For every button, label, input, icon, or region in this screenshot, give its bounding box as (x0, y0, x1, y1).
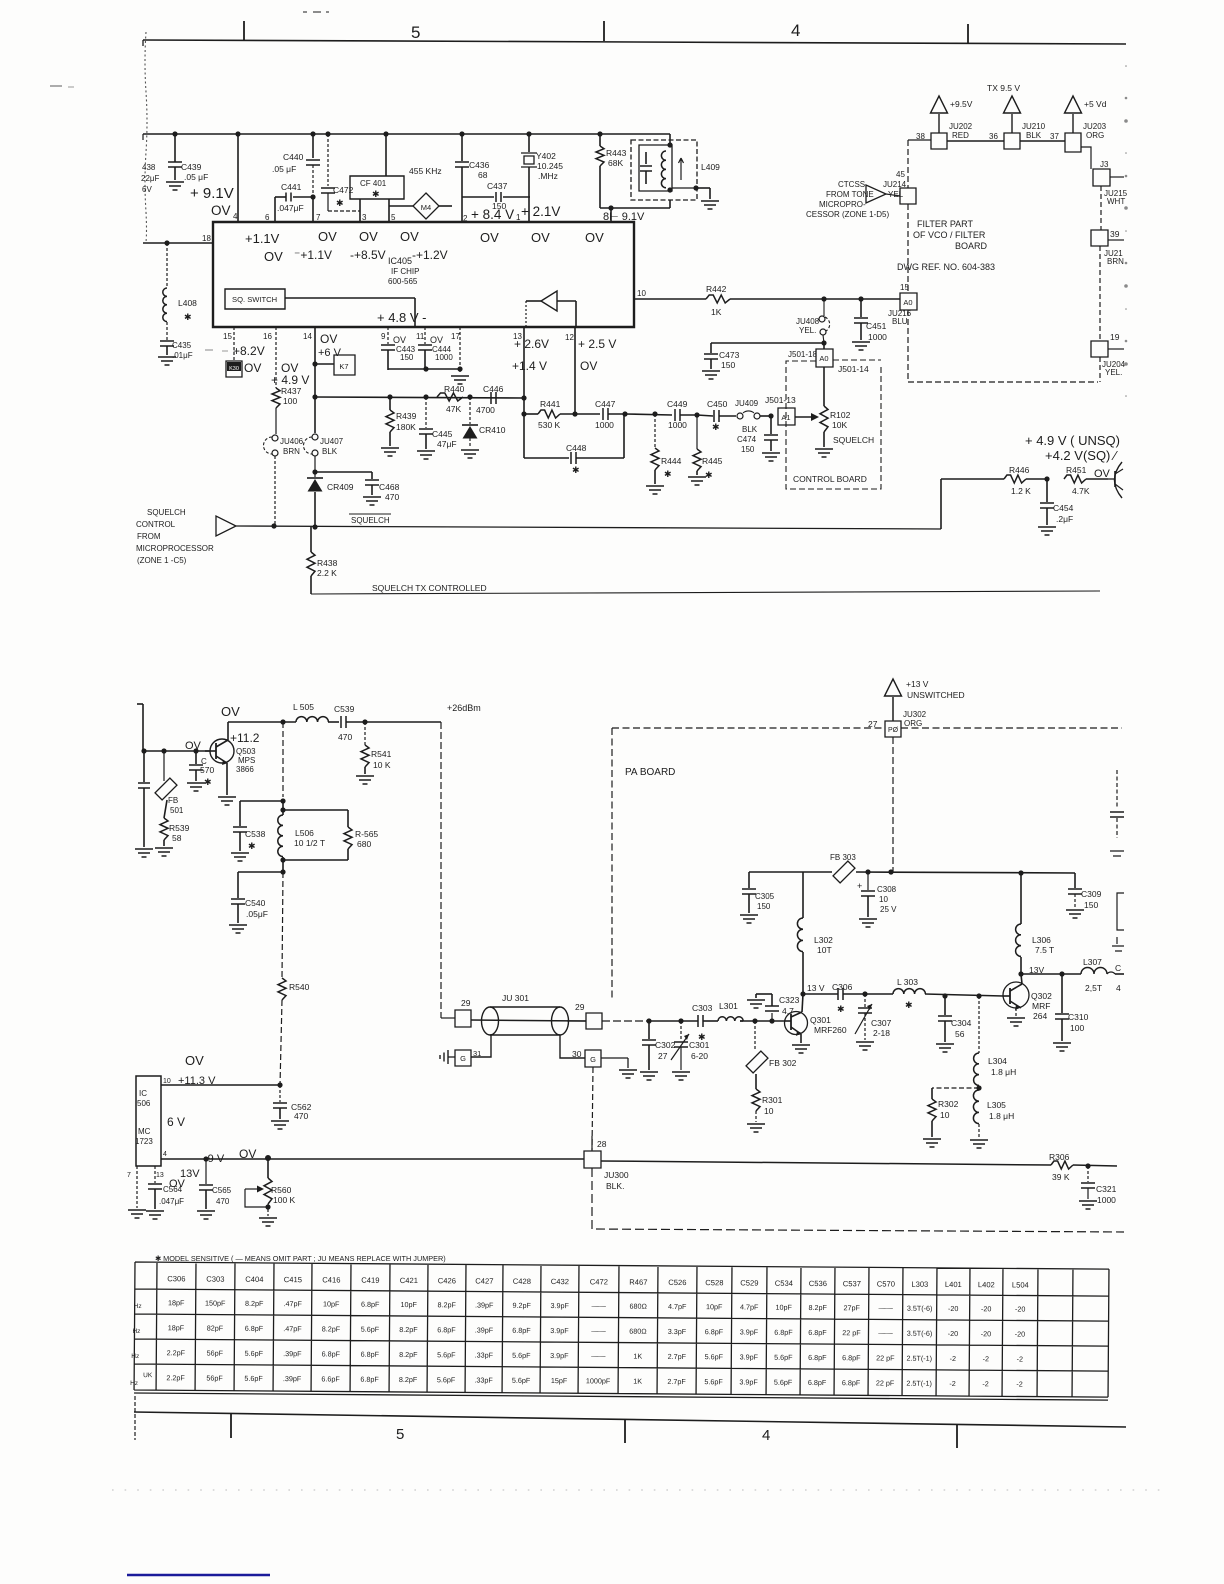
power TX 9.5V triangle (987, 83, 1021, 133)
svg-text:13V: 13V (180, 1168, 200, 1180)
svg-text:100 K: 100 K (273, 1195, 296, 1205)
capacitor C449 (667, 399, 700, 430)
svg-text:1000: 1000 (595, 420, 614, 430)
page corner marks (50, 12, 329, 351)
wire JU202-JU210 (947, 140, 1004, 142)
svg-text:C305: C305 (755, 892, 775, 901)
svg-text:2.2pF: 2.2pF (167, 1348, 186, 1357)
resistor R438 (307, 527, 338, 594)
svg-text:L402: L402 (978, 1280, 995, 1289)
transistor fragment right edge (1108, 462, 1123, 498)
IC IC506 regulator box (135, 1076, 161, 1166)
svg-text:+ 8.4 V: + 8.4 V (471, 207, 514, 222)
svg-text:+ 2.6V: + 2.6V (514, 337, 549, 351)
svg-text:-20: -20 (1015, 1329, 1025, 1338)
crystal Y402 (521, 131, 563, 222)
svg-text:3866: 3866 (236, 765, 254, 774)
diode CR410 (462, 397, 506, 448)
svg-text:R445: R445 (702, 456, 723, 466)
capacitor C441 (275, 182, 316, 222)
svg-text:6V: 6V (142, 185, 152, 194)
svg-text:C473: C473 (719, 350, 740, 360)
resistor R442 row (634, 284, 900, 317)
svg-text:SQUELCH: SQUELCH (351, 516, 390, 525)
svg-text:YEL.: YEL. (1105, 368, 1122, 377)
svg-text:8.2pF: 8.2pF (245, 1299, 264, 1308)
svg-text:JU202: JU202 (949, 122, 973, 131)
svg-text:.05 μF: .05 μF (184, 172, 208, 182)
svg-text:47K: 47K (446, 404, 461, 414)
faint separator (112, 1489, 1165, 1491)
svg-text:6-20: 6-20 (691, 1051, 708, 1061)
svg-text:-+1.2V: -+1.2V (412, 248, 448, 262)
capacitor C306 (803, 982, 865, 1014)
wire pin 4 row (161, 1151, 584, 1162)
svg-text:4: 4 (791, 21, 800, 40)
svg-text:J501-18: J501-18 (788, 350, 817, 359)
wire Q302 collector (1018, 965, 1044, 984)
capacitor C570 (189, 751, 214, 787)
wire PA ground return (592, 1168, 1124, 1232)
svg-text:4.7: 4.7 (782, 1006, 794, 1016)
svg-text:C306: C306 (167, 1274, 185, 1283)
svg-text:9: 9 (381, 332, 386, 341)
filter board label (897, 219, 995, 272)
svg-text:JU302: JU302 (903, 710, 927, 719)
capacitor C444 (418, 327, 453, 370)
svg-text:7: 7 (316, 213, 321, 222)
svg-text:A0: A0 (903, 298, 912, 307)
svg-text:29: 29 (575, 1002, 585, 1012)
svg-text:8.2pF: 8.2pF (399, 1325, 418, 1334)
svg-text:5.6pF: 5.6pF (774, 1353, 793, 1362)
wire C306-L303 (862, 991, 893, 996)
svg-text:4: 4 (163, 1151, 167, 1158)
svg-text:-2: -2 (1016, 1379, 1022, 1388)
ground C304 (936, 1044, 954, 1052)
resistor R439 (386, 397, 417, 446)
svg-text:6.8pF: 6.8pF (512, 1326, 531, 1335)
svg-text:C309: C309 (1081, 889, 1102, 899)
svg-text:R302: R302 (938, 1099, 959, 1109)
wire squelch tx controlled (311, 583, 1100, 594)
svg-text:38: 38 (916, 132, 925, 141)
svg-text:10pF: 10pF (400, 1300, 417, 1309)
svg-text:SQUELCH: SQUELCH (147, 508, 186, 517)
svg-text:C436: C436 (469, 160, 490, 170)
svg-text:7.5 T: 7.5 T (1035, 945, 1054, 955)
svg-text:13 V: 13 V (807, 983, 825, 993)
resistor R302 (928, 1088, 979, 1137)
capacitor C303 (649, 1003, 718, 1042)
svg-text:Q302: Q302 (1031, 991, 1052, 1001)
svg-text:L 303: L 303 (897, 977, 918, 987)
resistor R541 (361, 722, 392, 774)
svg-text:7: 7 (127, 1172, 131, 1179)
ground R560 (259, 1218, 277, 1226)
svg-text:FB 303: FB 303 (830, 853, 856, 862)
svg-text:.39pF: .39pF (283, 1374, 302, 1383)
svg-text:8.2pF: 8.2pF (399, 1375, 418, 1384)
potentiometer R102 (820, 367, 874, 447)
ground R302 (923, 1139, 941, 1147)
svg-text:R441: R441 (540, 399, 561, 409)
svg-text:Q301: Q301 (810, 1015, 831, 1025)
svg-text:C439: C439 (181, 162, 202, 172)
wire CF401 pin5 (389, 199, 396, 222)
wire to JU301 (441, 722, 455, 1018)
svg-text:18pF: 18pF (168, 1298, 185, 1307)
svg-text:C303: C303 (692, 1003, 713, 1013)
border zone number 5 top (411, 23, 420, 42)
wire pin 12 drop (572, 327, 577, 417)
resistor R446 (941, 465, 1050, 496)
svg-text:+6 V: +6 V (318, 347, 342, 359)
svg-text:6.8pF: 6.8pF (808, 1353, 827, 1362)
capacitor C305 (742, 872, 775, 913)
svg-text:39 K: 39 K (1052, 1172, 1070, 1182)
svg-text:+ 4.9 V: + 4.9 V (271, 373, 309, 387)
svg-text:100: 100 (283, 396, 297, 406)
svg-text:27: 27 (658, 1051, 668, 1061)
border bottom line (134, 1396, 1126, 1440)
svg-text:JU408: JU408 (796, 317, 820, 326)
svg-text:-9 V: -9 V (204, 1153, 225, 1165)
capacitor C454 (1040, 479, 1074, 525)
voltage +8.2V (233, 344, 265, 358)
svg-text:C404: C404 (245, 1275, 263, 1284)
svg-text:✱: ✱ (184, 312, 192, 322)
svg-text:+26dBm: +26dBm (447, 703, 481, 713)
svg-text:C427: C427 (475, 1276, 493, 1285)
svg-text:C428: C428 (513, 1277, 531, 1286)
svg-text:10T: 10T (817, 945, 832, 955)
svg-text:C565: C565 (212, 1186, 232, 1195)
control board outline (786, 360, 881, 489)
ground C321 (1079, 1201, 1097, 1209)
svg-text:5.6pF: 5.6pF (512, 1351, 531, 1360)
svg-text:L506: L506 (295, 828, 314, 838)
jumper JU409 (735, 399, 771, 434)
svg-text:A0: A0 (819, 354, 828, 363)
svg-text:ORG: ORG (904, 719, 922, 728)
svg-text:C415: C415 (284, 1275, 302, 1284)
connector pin 39 (1091, 229, 1124, 266)
voltage labels pin4 row (204, 1147, 256, 1165)
capacitor C451 (852, 300, 887, 350)
svg-text:C: C (1115, 963, 1121, 973)
svg-text:JU203: JU203 (1083, 122, 1107, 131)
svg-text:——: —— (591, 1326, 606, 1335)
svg-text:CR409: CR409 (327, 482, 354, 492)
svg-text:FROM: FROM (137, 532, 161, 541)
svg-text:68: 68 (478, 170, 488, 180)
svg-text:18pF: 18pF (168, 1323, 185, 1332)
svg-text:OV: OV (185, 1053, 204, 1068)
wire G30 to JU300 (592, 1067, 593, 1150)
svg-text:100: 100 (1070, 1023, 1084, 1033)
svg-text:5.6pF: 5.6pF (437, 1375, 456, 1384)
svg-text:11: 11 (416, 332, 425, 341)
wire JU302 to rail (892, 737, 894, 872)
ground C302 (640, 1072, 658, 1080)
svg-text:150: 150 (400, 353, 414, 362)
svg-text:SQUELCH: SQUELCH (833, 435, 874, 445)
transistor Q302 (1003, 982, 1052, 1021)
svg-text:YEL.: YEL. (799, 326, 816, 335)
svg-text:C451: C451 (866, 321, 887, 331)
wire to R446 (940, 479, 942, 529)
wire R440 row (315, 394, 524, 399)
resistor R-565 (283, 810, 378, 860)
svg-text:680Ω: 680Ω (629, 1327, 647, 1336)
resistor R443 (596, 131, 627, 208)
svg-text:C448: C448 (566, 443, 587, 453)
svg-text:TX 9.5 V: TX 9.5 V (987, 83, 1020, 93)
wire Q503 collector (227, 722, 229, 740)
wire JU300 row right (601, 1161, 1051, 1165)
svg-text:27pF: 27pF (843, 1303, 860, 1312)
svg-text:36: 36 (989, 132, 998, 141)
svg-text:1K: 1K (633, 1352, 642, 1361)
wire Q301 emitter (800, 1034, 802, 1043)
ground Q301 (792, 1045, 810, 1053)
svg-text:DWG REF. NO. 604-383: DWG REF. NO. 604-383 (897, 262, 995, 272)
voltage label +9.1V (190, 185, 234, 202)
svg-text:JU409: JU409 (735, 399, 759, 408)
squelch control triangle (216, 516, 236, 536)
svg-text:C449: C449 (667, 399, 688, 409)
border top line (143, 40, 1126, 46)
ground G30 (619, 1070, 637, 1078)
wire pin 10 row (161, 1075, 283, 1088)
svg-text:OV: OV (318, 229, 337, 244)
capacitor C448 loop (524, 414, 624, 475)
svg-text:✱: ✱ (698, 1032, 706, 1042)
wire JU210-JU203 (1020, 140, 1065, 142)
border zone number 4 bottom (762, 1427, 770, 1444)
svg-text:-20: -20 (981, 1329, 991, 1338)
svg-text:6: 6 (265, 213, 270, 222)
squelch control text (136, 508, 214, 565)
svg-text:1000: 1000 (668, 420, 687, 430)
svg-text:10 K: 10 K (373, 760, 391, 770)
svg-text:17: 17 (451, 332, 460, 341)
svg-text:+11.2: +11.2 (230, 731, 260, 745)
svg-text:8.2pF: 8.2pF (808, 1303, 827, 1312)
connector JU210 pin36 (989, 122, 1046, 149)
voltage label 8 +9.1V (603, 211, 645, 223)
svg-text:150: 150 (757, 902, 771, 911)
ground R301 (747, 1124, 765, 1132)
svg-text:+ 4.8 V -: + 4.8 V - (377, 310, 427, 325)
svg-text:OV: OV (393, 335, 406, 345)
svg-text:.05 μF: .05 μF (272, 164, 296, 174)
svg-text:5.6pF: 5.6pF (245, 1349, 264, 1358)
svg-text:3.9pF: 3.9pF (550, 1326, 569, 1335)
ferrite bead FB303 (830, 853, 856, 883)
svg-text:L305: L305 (987, 1100, 1006, 1110)
capacitor C438 (cut off at page edge) (141, 163, 160, 194)
wire CF401 pin3 (360, 199, 367, 222)
wire pin 7 (127, 1166, 137, 1208)
svg-text:R440: R440 (444, 384, 465, 394)
svg-text:Y402: Y402 (536, 151, 556, 161)
svg-text:15: 15 (223, 332, 232, 341)
wire sq switch to pin 14 (285, 298, 415, 327)
svg-text:PA BOARD: PA BOARD (625, 767, 675, 778)
svg-text:MPS: MPS (238, 756, 255, 765)
svg-text:YEL: YEL (888, 190, 904, 199)
svg-text:6.8pF: 6.8pF (361, 1350, 380, 1359)
svg-text:Hz: Hz (134, 1303, 142, 1310)
svg-text:L303: L303 (911, 1280, 928, 1289)
svg-text:L302: L302 (814, 935, 833, 945)
svg-text:.MHz: .MHz (538, 171, 558, 181)
svg-text:1723: 1723 (135, 1137, 153, 1146)
svg-text:2.2 K: 2.2 K (317, 568, 337, 578)
svg-text:5: 5 (411, 23, 420, 42)
svg-text:JU 301: JU 301 (502, 993, 529, 1003)
ground L409 (696, 188, 719, 209)
svg-text:150pF: 150pF (205, 1299, 226, 1308)
border zone number 4 top (791, 21, 800, 40)
voltage labels pin13 (512, 337, 549, 373)
svg-text:3: 3 (362, 213, 367, 222)
svg-text:——: —— (591, 1301, 606, 1310)
svg-text:-20: -20 (948, 1329, 958, 1338)
svg-text:5: 5 (391, 213, 396, 222)
wire pin39 to pin19 (1099, 246, 1101, 341)
wire +9.1V top rail (143, 134, 670, 140)
PA board outline (612, 728, 1122, 1000)
table note (155, 1254, 446, 1263)
svg-text:C474: C474 (737, 435, 757, 444)
svg-text:MICROPRO-: MICROPRO- (819, 200, 866, 209)
svg-text:1.8 μH: 1.8 μH (991, 1067, 1016, 1077)
svg-text:8.2pF: 8.2pF (437, 1300, 456, 1309)
svg-text:(ZONE 1 -C5): (ZONE 1 -C5) (137, 556, 187, 565)
svg-text:C570: C570 (877, 1279, 895, 1288)
ground C308 (859, 919, 877, 927)
capacitor C436 (455, 131, 490, 222)
svg-text:-2: -2 (1017, 1354, 1023, 1363)
svg-text:37: 37 (1050, 132, 1059, 141)
diode CR409 (307, 469, 354, 527)
svg-text:10: 10 (637, 289, 646, 298)
IC405 internal voltage row1 (245, 229, 604, 246)
ground C562 (271, 1121, 289, 1129)
svg-text:45: 45 (896, 170, 905, 179)
ground R445 (688, 477, 706, 485)
ground C310 (1053, 1043, 1071, 1051)
meter point M4 (389, 166, 452, 219)
svg-text:39: 39 (1110, 229, 1120, 239)
svg-text:3.9pF: 3.9pF (739, 1377, 758, 1386)
trimmer C307 (855, 994, 892, 1040)
svg-text:C321: C321 (1096, 1184, 1117, 1194)
ground C540 (229, 925, 247, 933)
svg-text:C302: C302 (655, 1040, 676, 1050)
power +13V triangle (885, 679, 965, 721)
svg-text:K7: K7 (339, 362, 348, 371)
svg-text:UNSWITCHED: UNSWITCHED (907, 690, 965, 700)
svg-text:SQ. SWITCH: SQ. SWITCH (232, 295, 277, 304)
svg-text:Hz: Hz (132, 1328, 140, 1335)
svg-text:29: 29 (461, 998, 471, 1008)
svg-text:3.3pF: 3.3pF (668, 1327, 687, 1336)
svg-text:WHT: WHT (1107, 197, 1125, 206)
svg-text:C437: C437 (487, 181, 508, 191)
svg-text:✱: ✱ (712, 422, 720, 432)
svg-text:FILTER PART: FILTER PART (917, 219, 974, 229)
svg-text:+8.2V: +8.2V (233, 344, 265, 358)
svg-text:1000: 1000 (1097, 1195, 1116, 1205)
svg-text:BOARD: BOARD (955, 241, 988, 251)
svg-text:OV: OV (1094, 468, 1111, 480)
ground C435 (158, 357, 176, 365)
svg-text:5: 5 (396, 1426, 404, 1443)
border tick top-3 (967, 24, 969, 44)
svg-text:L504: L504 (1012, 1280, 1029, 1289)
svg-text:506: 506 (137, 1099, 151, 1108)
ground C538 (231, 853, 249, 861)
svg-text:10: 10 (764, 1106, 774, 1116)
svg-text:BLK.: BLK. (606, 1181, 624, 1191)
svg-text:C441: C441 (281, 182, 302, 192)
filter CF401 (350, 131, 404, 199)
wire J3 to pin39 (1100, 186, 1102, 230)
svg-text:C416: C416 (322, 1275, 340, 1284)
svg-text:3.9pF: 3.9pF (550, 1301, 569, 1310)
ground lug G30 (560, 1035, 628, 1068)
svg-text:10: 10 (163, 1078, 171, 1085)
svg-text:OV: OV (320, 332, 337, 346)
ground R539 (155, 848, 173, 856)
svg-text:10pF: 10pF (775, 1303, 792, 1312)
ground C564 (146, 1211, 164, 1219)
svg-text:6.8pF: 6.8pF (808, 1328, 827, 1337)
svg-text:5.6pF: 5.6pF (361, 1325, 380, 1334)
svg-text:C419: C419 (361, 1276, 379, 1285)
svg-text:R-565: R-565 (355, 829, 378, 839)
svg-text:470: 470 (338, 732, 352, 742)
capacitor C446 (476, 384, 504, 415)
svg-text:C446: C446 (483, 384, 504, 394)
capacitor C445 (419, 397, 457, 449)
svg-text:C435: C435 (172, 341, 192, 350)
svg-text:10K: 10K (832, 420, 847, 430)
svg-text:5.6pF: 5.6pF (244, 1374, 263, 1383)
svg-text:OV: OV (531, 230, 550, 245)
svg-text:3.9pF: 3.9pF (740, 1352, 759, 1361)
ground Q503 (218, 797, 236, 805)
svg-text:C447: C447 (595, 399, 616, 409)
svg-text:L301: L301 (719, 1001, 738, 1011)
svg-text:.01μF: .01μF (172, 351, 193, 360)
svg-text:2.7pF: 2.7pF (667, 1377, 686, 1386)
squelch switch block (225, 289, 285, 309)
jumper JU407 (304, 434, 344, 477)
svg-text:1000: 1000 (435, 353, 453, 362)
svg-text:2.5T(-1): 2.5T(-1) (907, 1354, 933, 1363)
resistor R440 (437, 384, 465, 414)
svg-text:56pF: 56pF (207, 1349, 224, 1358)
wire PA top rail (228, 719, 296, 724)
svg-text:10: 10 (940, 1110, 950, 1120)
svg-text:31: 31 (473, 1049, 481, 1058)
resistor R451 (1064, 465, 1111, 496)
